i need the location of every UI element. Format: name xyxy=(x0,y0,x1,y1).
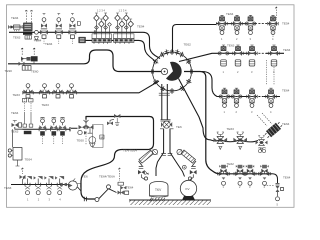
row2 dashed drops to row3 xyxy=(267,60,275,85)
manifold drain dash M2 xyxy=(42,136,44,144)
svg-text:TE64: TE64 xyxy=(282,122,290,126)
svg-text:TE64: TE64 xyxy=(283,176,291,180)
row3 station R3a xyxy=(219,88,229,107)
row4 station R4b xyxy=(233,132,247,150)
W1 extra boxes xyxy=(22,99,33,102)
row3 station R3d xyxy=(266,88,276,107)
balloon 2-4 xyxy=(128,19,134,27)
row1 station R1c xyxy=(245,15,255,34)
manifold row station M2 xyxy=(39,117,46,135)
W1 drain dashes xyxy=(25,99,32,113)
svg-text:TE54: TE54 xyxy=(282,22,290,26)
wire left leg to TKV xyxy=(156,129,164,177)
valve square 2-3 xyxy=(124,26,128,30)
regulator cluster R1 xyxy=(22,23,33,31)
small tank T2 xyxy=(8,148,22,167)
nozzle balloon bank2 stems xyxy=(118,21,131,34)
manifold block bank1 xyxy=(92,34,112,44)
joint circle G2 xyxy=(107,185,111,189)
balloon 2-1 xyxy=(115,13,121,21)
riser main valve X1 xyxy=(160,121,174,129)
footer station F1 xyxy=(23,176,32,195)
V3 side box xyxy=(77,22,80,26)
relief valve pair on meander xyxy=(107,114,120,126)
row4 vent circles xyxy=(258,148,266,153)
block on bus2 start xyxy=(79,37,86,43)
row1 station R1b xyxy=(232,15,242,34)
svg-text:1 2 3 4: 1 2 3 4 xyxy=(97,8,105,12)
vent funnel under gauge xyxy=(34,37,39,40)
wire left inlet stub xyxy=(9,26,24,28)
leg couplings xyxy=(161,154,172,156)
svg-text:1 2 3 4: 1 2 3 4 xyxy=(119,8,127,12)
row3 dashed diagonals to blob xyxy=(257,113,272,126)
row2 station R2b xyxy=(233,45,243,66)
wire hub bottom pair left xyxy=(161,84,163,120)
bottom-right vertical valve assembly xyxy=(276,184,284,201)
wire hub diagonal to row2 xyxy=(179,53,284,61)
ground hatch xyxy=(129,200,211,205)
svg-text:TE90: TE90 xyxy=(5,69,13,73)
footer station F3 xyxy=(44,176,53,195)
manifold row station M3 xyxy=(50,117,57,135)
drain dashed V2 xyxy=(58,39,60,45)
wire hub lower-right diagonal to row4 xyxy=(179,79,259,142)
svg-text:TE6: TE6 xyxy=(176,125,182,129)
svg-text:TE63: TE63 xyxy=(227,127,235,131)
balloon 1-4 xyxy=(108,23,112,27)
row5 station R5b xyxy=(234,165,246,186)
wire hub right port with branch to row5 xyxy=(184,72,272,174)
drain dashed V3 xyxy=(71,39,73,45)
row4 station R4c xyxy=(256,135,268,150)
wire left valve-row line to hub xyxy=(23,81,160,93)
svg-text:KV: KV xyxy=(186,187,190,191)
wire footer to pump xyxy=(67,185,82,192)
svg-text:TE64: TE64 xyxy=(25,158,33,162)
manifold riser block xyxy=(23,112,33,134)
wire row3 dashed gap xyxy=(255,96,264,98)
riser pair upper flanges xyxy=(161,119,171,121)
row4 station R4a xyxy=(214,132,228,150)
wire hub bottom pair right xyxy=(166,84,168,120)
solenoid block S1 xyxy=(23,31,32,34)
right loading arm xyxy=(177,149,197,180)
svg-text:TE63: TE63 xyxy=(42,103,50,107)
flange pair on bus1 xyxy=(94,30,96,34)
pump P1 xyxy=(68,178,80,190)
svg-text:TE63: TE63 xyxy=(4,186,12,190)
svg-text:TE63: TE63 xyxy=(227,44,235,48)
wire meander from 4-way valve to bottom xyxy=(81,117,154,200)
svg-text:TE62: TE62 xyxy=(184,43,192,47)
row5 station R5c xyxy=(244,165,256,186)
svg-text:TE64: TE64 xyxy=(11,111,19,115)
drain dashed V1 xyxy=(43,39,45,45)
wire hub top riser to row1 xyxy=(173,25,217,53)
svg-text:TE6: TE6 xyxy=(82,175,88,179)
footer station F2 xyxy=(34,176,43,195)
svg-text:TE63: TE63 xyxy=(13,93,21,97)
check ticks on bottom line xyxy=(84,197,86,202)
valve square 1-1 xyxy=(95,26,99,30)
wire bottom-left manifold row xyxy=(23,127,78,131)
svg-text:TE64: TE64 xyxy=(283,48,291,52)
manifold drain dash M4 xyxy=(62,136,64,144)
row3 station R3c xyxy=(247,88,257,107)
svg-text:TE4/TE64: TE4/TE64 xyxy=(123,149,137,153)
manifold left feeder valve xyxy=(12,121,23,148)
balloon 1-3 xyxy=(103,13,109,21)
left row station W2 xyxy=(39,84,49,98)
svg-text:TE94: TE94 xyxy=(137,25,145,29)
filter box F1 xyxy=(14,25,21,31)
footer feeder valve xyxy=(20,175,26,185)
left loading arm xyxy=(138,149,158,180)
valve square 2-1 xyxy=(116,26,120,30)
wire branch to row3 xyxy=(202,72,280,97)
row5 station R5d xyxy=(259,165,271,186)
nozzle balloon bank1 stems xyxy=(97,21,110,34)
left row station W1 xyxy=(23,84,33,98)
row2 station R2d xyxy=(269,45,279,66)
valve square 1-3 xyxy=(104,26,108,30)
wire bus2 lower header xyxy=(79,40,155,60)
gauge circle on bus1 xyxy=(35,30,39,34)
left row station W3 xyxy=(53,84,63,98)
row1 dashed drop station d xyxy=(272,27,274,38)
left row station W4 xyxy=(66,84,76,98)
pilot dashed K1 left xyxy=(21,48,23,57)
balloon 1-2 xyxy=(99,19,105,27)
svg-text:TE94: TE94 xyxy=(45,42,53,46)
dashed line into assembly xyxy=(264,185,274,187)
wire row2 dashed gap xyxy=(255,52,266,54)
riser pair flange bars xyxy=(159,93,170,95)
svg-text:TE63: TE63 xyxy=(13,36,21,40)
tank KV sphere xyxy=(180,180,196,200)
balloon 2-2 xyxy=(119,19,125,27)
tiny number labels xyxy=(27,8,279,206)
manifold row station M4 xyxy=(59,117,66,135)
manifold block bank2 xyxy=(114,34,135,44)
4way valve cluster Q1 xyxy=(78,120,94,146)
svg-text:TE94: TE94 xyxy=(34,39,42,43)
wire bus1 top-left main header xyxy=(9,32,160,58)
tank TKV xyxy=(149,182,168,202)
footer end valve xyxy=(61,183,67,186)
svg-text:TE63: TE63 xyxy=(11,130,19,134)
svg-text:TE64: TE64 xyxy=(226,12,234,16)
row1 station R1d xyxy=(268,15,278,34)
wire lambda link over gauges xyxy=(99,185,117,199)
wire mid-left S-line to hub xyxy=(8,50,161,72)
svg-text:TE60: TE60 xyxy=(31,70,39,74)
joint circle G1 xyxy=(95,198,99,202)
pilot dashed K1 right xyxy=(33,48,35,56)
row1 pilot dashed up xyxy=(275,7,277,21)
wire row1 header xyxy=(216,23,278,25)
dark angled unit X9 xyxy=(264,121,284,139)
row5 station R5a xyxy=(218,165,230,186)
valve station V1 xyxy=(41,14,48,39)
svg-text:TE64/TE6A: TE64/TE6A xyxy=(99,175,116,179)
footer pilot dash xyxy=(21,168,23,175)
svg-text:TE62: TE62 xyxy=(227,162,235,166)
manifold drain dash M3 xyxy=(53,136,55,144)
valve station V3 xyxy=(69,14,76,39)
bottom-center valve cluster TE64 xyxy=(118,182,129,194)
wire row1 dashed gap xyxy=(255,23,268,25)
subsystem box with drain pot xyxy=(89,125,104,148)
mid-left shutoff cluster K1 xyxy=(19,56,38,70)
row2 station R2a xyxy=(218,45,228,66)
inlet tee fitting xyxy=(8,25,13,29)
wire footer row xyxy=(11,184,67,186)
row2 station R2c xyxy=(247,45,257,66)
wire row5 corner down right end xyxy=(272,174,278,183)
svg-text:TE64: TE64 xyxy=(126,186,134,190)
wire right leg to KV xyxy=(170,129,185,177)
valve body box below S1 xyxy=(25,36,32,40)
row3 station R3b xyxy=(231,88,241,107)
pilot dashed above TE64 cluster xyxy=(118,168,120,182)
svg-text:TE94: TE94 xyxy=(11,16,19,20)
footer station F4 xyxy=(55,176,64,195)
pilot dashed line B xyxy=(30,10,32,23)
balloon 2-3 xyxy=(124,13,130,21)
svg-text:TE64: TE64 xyxy=(282,89,290,93)
balloon 1-1 xyxy=(94,13,100,21)
svg-text:TE60: TE60 xyxy=(77,139,85,143)
hub circle U1 xyxy=(150,49,195,94)
svg-text:TKV: TKV xyxy=(155,188,162,192)
pilot dashed line A xyxy=(25,10,27,23)
row1 station R1a xyxy=(217,15,227,34)
valve station V2 xyxy=(55,14,62,39)
